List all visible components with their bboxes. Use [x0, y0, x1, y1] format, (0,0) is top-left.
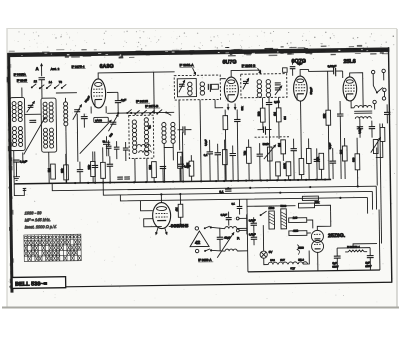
wire — [371, 191, 373, 209]
resistor R14 — [299, 159, 304, 175]
bus junction — [200, 180, 202, 182]
svg-text:0,02µF: 0,02µF — [328, 64, 337, 68]
capacitor C32 — [314, 159, 320, 161]
wire — [146, 158, 148, 181]
wire — [56, 92, 77, 94]
svg-text:600: 600 — [148, 165, 152, 170]
IF transformer T1 — [174, 75, 220, 100]
wire plate 6A8G — [98, 72, 175, 79]
AVC dashed line — [255, 136, 290, 138]
resistor R29 — [246, 147, 251, 163]
ballast resistor R21 — [281, 209, 287, 229]
wire — [337, 247, 370, 249]
wire — [169, 222, 181, 226]
svg-text:P.: P. — [237, 236, 240, 240]
supply top wire — [247, 206, 296, 212]
filter resistor R24 — [348, 250, 364, 252]
field coil L5 — [225, 226, 237, 228]
svg-text:250k: 250k — [282, 162, 286, 168]
bus junction — [109, 181, 111, 183]
wire — [181, 132, 184, 181]
oscillator coil T-osc — [129, 115, 154, 158]
resistor R27 — [342, 146, 347, 161]
pickup terminal — [371, 70, 374, 73]
wire — [376, 147, 383, 157]
wire — [172, 147, 174, 160]
resistor R11 — [281, 140, 286, 154]
RF coil L3 — [64, 102, 68, 106]
resistor R7 — [177, 152, 182, 168]
padder capacitor C10 — [103, 142, 110, 144]
oscillator coil L4 — [162, 122, 166, 126]
svg-text:0,5µF: 0,5µF — [249, 218, 256, 222]
capacitor C39 — [123, 148, 129, 150]
title box BELL 538 — [12, 277, 66, 289]
resistor R12 — [276, 162, 281, 176]
grid capacitor C8 — [115, 101, 121, 103]
capacitor C33 — [330, 161, 336, 163]
capacitor C25 — [369, 127, 375, 129]
wire — [350, 73, 363, 108]
wave switch S4 — [126, 112, 128, 114]
supply outline wire — [246, 212, 249, 272]
bus junction — [237, 180, 239, 182]
resistor R17 — [380, 127, 385, 141]
wire — [76, 114, 79, 162]
tone capacitor C24 — [357, 127, 363, 129]
capacitor C15 — [160, 166, 166, 168]
svg-text:25k: 25k — [322, 113, 326, 118]
resistor R4 — [91, 161, 96, 176]
bus junction — [230, 180, 232, 182]
wire — [163, 147, 165, 181]
svg-text:25Z6: 25Z6 — [298, 247, 304, 250]
capacitor C14 — [117, 177, 123, 179]
svg-text:0,5µF: 0,5µF — [221, 214, 228, 217]
heater bus resistor R30 — [302, 196, 318, 200]
capacitor C6 — [77, 170, 83, 172]
svg-text:Amt. 2: Amt. 2 — [51, 67, 60, 71]
bus junction — [94, 182, 96, 184]
bus junction — [172, 181, 174, 183]
oscillator feedback coil L7 — [137, 144, 151, 146]
bus junction — [87, 182, 89, 184]
page edge left — [6, 28, 8, 308]
bus junction — [163, 181, 165, 183]
grid resistor R15 — [326, 110, 331, 125]
resistor R26 — [319, 153, 324, 169]
wire chassis loop — [14, 184, 24, 196]
border frame left band — [7, 53, 15, 293]
wire — [134, 158, 136, 181]
capacitor C13 — [183, 126, 185, 135]
bus junction — [245, 180, 247, 182]
resistor R2b — [64, 165, 69, 180]
svg-text:14: 14 — [49, 80, 53, 84]
wire — [342, 71, 344, 78]
resistor R3 — [101, 162, 106, 178]
AVC bus wire — [52, 179, 376, 191]
wire — [374, 104, 376, 110]
wire right pair — [380, 123, 382, 243]
wire — [262, 225, 264, 251]
bus junction — [223, 180, 225, 182]
heater resistor R23 — [289, 231, 307, 236]
eye resistor R18 — [178, 204, 183, 217]
bus junction — [305, 179, 307, 181]
heater bus wire — [120, 191, 367, 200]
wire — [307, 232, 311, 234]
screen capacitor C23 — [337, 114, 343, 116]
wire — [107, 111, 174, 114]
wire — [300, 101, 303, 158]
wire — [144, 219, 162, 227]
speaker terminal — [195, 227, 198, 230]
svg-text:25k: 25k — [60, 168, 64, 173]
band switch S3 — [61, 87, 63, 89]
cathode pin arrows — [227, 104, 229, 110]
tube 6A8G V1 — [91, 79, 106, 108]
svg-text:0,1µF: 0,1µF — [329, 142, 332, 149]
ballast resistor R20 — [269, 211, 275, 229]
wire — [260, 70, 262, 74]
svg-text:1500: 1500 — [269, 206, 275, 210]
resistor R13 — [286, 162, 291, 176]
mains capacitor C29 — [251, 237, 257, 239]
svg-text:600k: 600k — [186, 162, 189, 168]
svg-text:A: A — [36, 66, 39, 71]
svg-text:25k: 25k — [87, 164, 91, 169]
svg-text:75k: 75k — [243, 150, 247, 155]
svg-text:6A8G: 6A8G — [100, 64, 114, 70]
page edge top — [7, 28, 397, 30]
trimmer capacitor C2 — [28, 105, 34, 107]
coupling capacitor C22 — [334, 68, 336, 76]
svg-text:12: 12 — [34, 79, 38, 83]
wire — [107, 91, 118, 93]
resistor R28 — [222, 150, 227, 165]
tube 6G5/6H5 V6 — [152, 202, 170, 228]
tone potentiometer P2 — [373, 140, 378, 154]
bus junction — [324, 178, 326, 180]
svg-text:6G5/6H5: 6G5/6H5 — [171, 223, 189, 228]
resistor R9 — [260, 108, 265, 122]
wire right rail — [378, 210, 381, 270]
svg-text:Inest. 1000 Ω p.V.: Inest. 1000 Ω p.V. — [25, 224, 57, 229]
capacitor C18 — [263, 126, 265, 134]
aerial coil L2 — [41, 98, 57, 152]
wire — [90, 107, 92, 114]
svg-text:20k: 20k — [314, 200, 319, 204]
bus junction — [289, 179, 291, 181]
pickup terminal — [373, 100, 376, 103]
svg-text:0,5µF: 0,5µF — [249, 232, 256, 236]
svg-text:0,1µF: 0,1µF — [205, 139, 208, 146]
aerial coil L1 — [10, 97, 25, 150]
border frame bottom line — [65, 282, 392, 287]
resistor R16 — [355, 154, 360, 170]
antenna A — [41, 64, 43, 76]
wire — [246, 199, 248, 206]
svg-text:0,5µF: 0,5µF — [358, 127, 361, 134]
wire plate 6U7G — [231, 70, 261, 77]
svg-text:IF 8645: IF 8645 — [17, 78, 28, 82]
speaker switch — [204, 227, 206, 229]
heater chain winding — [268, 262, 277, 264]
pickup switch — [376, 92, 378, 94]
capacitor C20 — [257, 154, 263, 156]
svg-text:IF 3659-A: IF 3659-A — [198, 258, 211, 262]
wire — [153, 72, 156, 112]
svg-text:IF 3674-B: IF 3674-B — [145, 104, 158, 108]
wave switch S5 — [141, 113, 143, 115]
svg-text:25Z6G.: 25Z6G. — [328, 233, 346, 239]
svg-text:IF 3675-4: IF 3675-4 — [72, 65, 85, 69]
wire — [160, 194, 162, 202]
pilot lamp — [260, 251, 267, 258]
volume potentiometer P1 — [267, 147, 272, 161]
svg-text:IF 9685A: IF 9685A — [14, 72, 26, 76]
wave switch S6 — [156, 113, 158, 115]
filter capacitor C31 — [367, 256, 374, 258]
cathode resistor R8 — [223, 116, 228, 130]
field coil L6 — [225, 249, 237, 251]
svg-text:6U7: 6U7 — [280, 259, 285, 262]
dropper resistor R19 — [298, 203, 314, 208]
capacitor C21 — [291, 149, 297, 151]
bus junction — [251, 179, 253, 181]
bus bypass capacitor C40 — [225, 189, 231, 191]
capacitor C17 — [266, 102, 272, 104]
wire — [353, 244, 377, 248]
svg-text:78: 78 — [59, 80, 63, 84]
svg-text:25L6: 25L6 — [343, 59, 355, 65]
antenna capacitor C1 — [38, 78, 44, 80]
svg-text:1M: 1M — [284, 116, 287, 120]
scan noise — [8, 30, 396, 302]
trimmer capacitor C4 — [74, 110, 80, 112]
supply bottom rail — [248, 270, 380, 272]
wire — [317, 252, 319, 270]
wire — [24, 113, 41, 115]
svg-text:5µF: 5µF — [297, 62, 302, 66]
wire — [307, 220, 313, 229]
speaker cone — [190, 231, 209, 247]
svg-text:8µF: 8µF — [365, 261, 370, 265]
speaker terminal — [195, 249, 198, 252]
eye pin arrows — [156, 228, 158, 235]
svg-text:160: 160 — [293, 216, 298, 220]
wire B+ feed — [375, 186, 377, 209]
resistor R1 — [51, 164, 56, 179]
svg-text:500k: 500k — [263, 142, 270, 146]
line capacitor C42 — [237, 206, 243, 208]
B+ bus wire — [103, 179, 372, 195]
resistor R5 — [152, 162, 157, 178]
valve socket table — [24, 234, 81, 261]
wire — [303, 250, 310, 264]
capacitor C34 — [207, 152, 213, 154]
svg-text:42: 42 — [195, 240, 201, 245]
terminal box — [283, 68, 288, 73]
bus junction — [297, 179, 299, 181]
capacitor C12 — [107, 164, 113, 166]
svg-text:IF 36135: IF 36135 — [136, 99, 148, 103]
wire — [317, 211, 331, 230]
svg-text:6U7G: 6U7G — [222, 59, 236, 65]
svg-text:6V: 6V — [269, 250, 273, 254]
tube 6U7G V2 — [224, 77, 238, 102]
bus junction — [102, 182, 104, 184]
svg-text:5000: 5000 — [280, 204, 286, 208]
tuning gang capacitor C3 — [29, 120, 36, 122]
wire — [383, 92, 385, 97]
border frame top band — [8, 45, 389, 59]
svg-text:0,1: 0,1 — [219, 190, 224, 194]
capacitor C38 — [114, 147, 120, 149]
wire — [22, 152, 24, 162]
heater resistor R22 — [289, 218, 307, 223]
svg-text:50µµF: 50µµF — [310, 87, 313, 95]
capacitor C36 — [230, 153, 236, 155]
cathode capacitor C16 — [234, 119, 240, 121]
capacitor C37 — [106, 146, 112, 148]
svg-text:1938 - 39: 1938 - 39 — [25, 210, 43, 215]
svg-text:300: 300 — [351, 157, 355, 162]
svg-text:8µF: 8µF — [332, 261, 337, 265]
tube 6Q7G V3 — [293, 76, 307, 101]
wire — [383, 73, 385, 81]
curly brace — [297, 245, 299, 255]
speaker switch — [204, 250, 206, 252]
mains switch S7 — [260, 214, 262, 216]
ground bus wire — [14, 179, 331, 183]
wire — [21, 87, 23, 97]
capacitor C5 — [13, 160, 19, 162]
bus junction — [284, 179, 286, 181]
wire grid 6U7G — [220, 78, 225, 80]
wire — [200, 100, 201, 181]
svg-text:6Q7: 6Q7 — [290, 267, 295, 270]
page edge right — [396, 29, 398, 307]
wire junction — [117, 112, 119, 114]
wire — [373, 74, 377, 93]
svg-text:0,1µF: 0,1µF — [20, 159, 28, 163]
band switch S1 — [31, 86, 33, 88]
output transformer T3 — [354, 105, 372, 118]
IF transformer T2 — [241, 74, 287, 98]
mains plug — [236, 214, 247, 234]
note text — [25, 210, 57, 229]
field capacitor C27 — [217, 237, 223, 239]
bus junction — [160, 193, 162, 195]
terminal lug — [23, 188, 27, 190]
bus junction — [74, 182, 76, 184]
wire — [65, 132, 68, 183]
tube 25Z6G V5 — [311, 230, 323, 252]
svg-text:1µF: 1µF — [121, 98, 126, 102]
filter capacitor C30 — [334, 256, 341, 258]
bus junction — [182, 180, 184, 182]
tube 25L6 V4 — [343, 77, 357, 101]
svg-text:0,05: 0,05 — [274, 100, 280, 104]
svg-text:IF 3661-A: IF 3661-A — [180, 63, 195, 67]
mains capacitor C28 — [251, 223, 257, 225]
bus junction — [276, 179, 278, 181]
bus junction — [260, 179, 262, 181]
svg-text:BELL 538~=: BELL 538~= — [15, 281, 48, 287]
resistor R6 — [189, 161, 194, 176]
page bottom shadow — [2, 307, 399, 309]
wire — [300, 69, 309, 76]
wire — [215, 99, 223, 107]
wire — [41, 84, 43, 98]
bus junction — [154, 181, 156, 183]
bus junction — [145, 181, 147, 183]
gang link arrow — [79, 120, 111, 153]
bus junction — [215, 180, 217, 182]
svg-text:MF = 145 kHz.: MF = 145 kHz. — [25, 217, 51, 222]
oscillator trimmer C11 — [110, 122, 116, 124]
resistor R10 — [276, 108, 281, 122]
svg-text:46Ω: 46Ω — [293, 229, 298, 233]
resistor R25 — [306, 148, 311, 163]
line capacitor C43 — [226, 218, 232, 220]
bus junction — [266, 179, 268, 181]
border frame right line — [389, 47, 392, 282]
wire — [366, 197, 368, 213]
padder capacitor C9 — [81, 117, 88, 119]
capacitor C26 — [384, 112, 390, 114]
wire — [264, 258, 269, 265]
capacitor C41 — [178, 164, 184, 166]
svg-text:0,1: 0,1 — [204, 153, 208, 157]
wire — [48, 152, 50, 183]
wire — [105, 106, 107, 113]
bus junction — [315, 179, 317, 181]
svg-text:25k: 25k — [315, 156, 319, 161]
wire — [178, 100, 181, 150]
svg-text:6A8G: 6A8G — [95, 118, 102, 122]
svg-text:6A8: 6A8 — [270, 259, 275, 262]
ground — [13, 175, 20, 181]
tube base box — [94, 117, 109, 122]
wire — [140, 200, 152, 210]
bus junction — [133, 181, 135, 183]
capacitor C7 — [92, 165, 98, 167]
wire — [351, 101, 354, 108]
svg-text:IF 3606 B: IF 3606 B — [242, 64, 256, 68]
diode capacitor C19 — [290, 67, 296, 69]
svg-text:25L6: 25L6 — [298, 259, 304, 262]
capacitor C35 — [215, 153, 221, 155]
band switch S2 — [46, 87, 48, 89]
wire — [13, 151, 15, 184]
